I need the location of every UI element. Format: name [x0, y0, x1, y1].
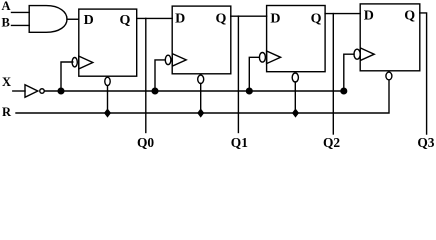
wire AND output to FF1 D	[67, 18, 79, 20]
junction reset FF2	[197, 108, 204, 117]
FF2 reset bubble	[198, 75, 204, 83]
svg-text:D: D	[84, 13, 94, 28]
svg-text:Q2: Q2	[323, 135, 340, 150]
svg-text:D: D	[270, 12, 280, 27]
svg-text:A: A	[2, 0, 11, 13]
FF4 reset bubble	[386, 72, 392, 80]
wire Q0 drop	[145, 18, 147, 132]
FF3 clock triangle	[267, 51, 281, 64]
svg-text:B: B	[2, 15, 10, 29]
svg-text:D: D	[364, 9, 374, 24]
svg-text:Q: Q	[404, 9, 415, 24]
wire X input	[13, 90, 25, 92]
junction clock FF3	[246, 87, 253, 94]
wire FF2 reset feed	[200, 84, 202, 114]
wire R reset line	[16, 80, 389, 113]
wire FF2 Q to FF3 D	[231, 15, 267, 17]
wire Q2 drop	[332, 14, 334, 134]
svg-text:Q: Q	[216, 12, 227, 27]
wire FF2 clock feed	[155, 60, 165, 91]
D flip-flop FF1 box	[79, 9, 137, 76]
wire FF4 clock feed	[344, 54, 354, 91]
FF3 reset bubble	[292, 73, 298, 82]
wire FF1 Q to FF2 D	[137, 17, 173, 19]
wire FF1 clock feed	[61, 62, 73, 91]
svg-text:Q: Q	[120, 13, 131, 28]
wire FF4 Q to Q3 drop	[420, 13, 427, 134]
wire B to AND gate	[12, 24, 30, 26]
FF2 clock triangle	[172, 54, 186, 67]
svg-text:D: D	[175, 12, 185, 27]
wire A to AND gate	[12, 11, 30, 13]
wire Q1 drop	[237, 16, 239, 132]
AND gate U1	[29, 6, 67, 33]
svg-text:Q1: Q1	[231, 135, 248, 150]
FF2 clock bubble	[165, 55, 171, 64]
svg-text:Q: Q	[311, 12, 322, 27]
svg-text:Q3: Q3	[417, 135, 434, 150]
wire X clock line	[44, 90, 344, 92]
junction reset FF1	[104, 108, 111, 117]
junction clock FF4	[340, 87, 347, 94]
inverter U2 triangle	[25, 85, 38, 98]
wire FF3 reset feed	[294, 82, 296, 113]
FF4 clock bubble	[354, 49, 360, 59]
inverter U2 output bubble	[40, 89, 45, 94]
wire FF3 Q to FF4 D	[325, 13, 360, 15]
svg-text:Q0: Q0	[137, 135, 154, 150]
wire FF1 reset feed	[107, 86, 109, 113]
junction reset FF3	[292, 108, 299, 117]
svg-text:R: R	[2, 105, 12, 119]
FF4 clock triangle	[360, 48, 374, 61]
D flip-flop FF4 box	[360, 4, 420, 71]
D flip-flop FF2 box	[172, 6, 231, 74]
junction clock FF2	[151, 87, 158, 94]
wire FF3 clock feed	[249, 57, 259, 91]
FF1 clock triangle	[79, 56, 93, 69]
svg-text:X: X	[2, 75, 11, 89]
FF3 clock bubble	[259, 53, 265, 63]
D flip-flop FF3 box	[267, 6, 326, 72]
FF1 reset bubble	[105, 77, 110, 85]
junction clock FF1	[57, 87, 64, 94]
FF1 clock bubble	[72, 58, 77, 67]
